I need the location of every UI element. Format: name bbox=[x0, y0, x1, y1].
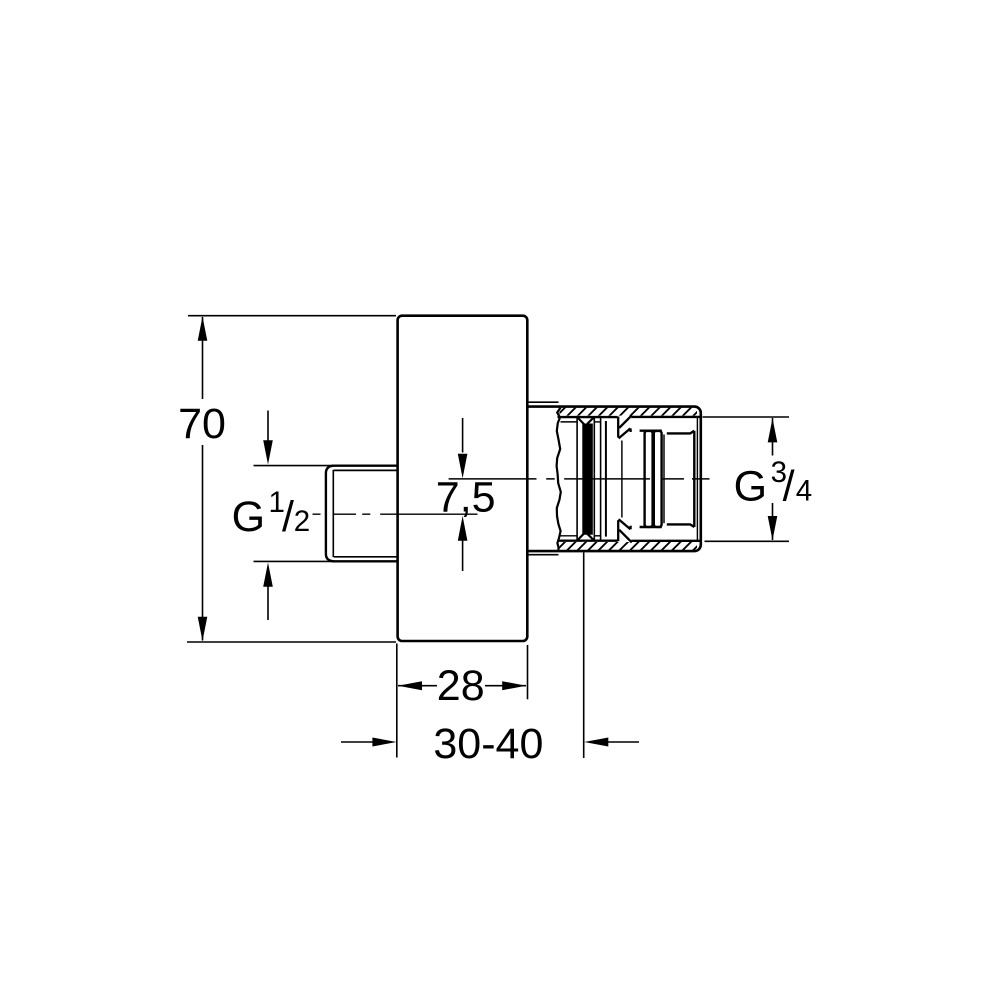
dim 70: bottom extension line bbox=[187, 641, 396, 643]
G1/2 dim: bottom extension line bbox=[254, 560, 333, 562]
G1/2 threaded tail: top outer edge bbox=[332, 465, 398, 467]
nut bore top edge bbox=[631, 416, 699, 418]
svg-text:28: 28 bbox=[437, 662, 485, 710]
dim 28: left extension line bbox=[396, 644, 398, 758]
svg-text:30-40: 30-40 bbox=[433, 720, 543, 768]
nipple face line bbox=[663, 435, 665, 524]
sleeve inner thin line top-left bbox=[561, 421, 577, 423]
nipple cone tip vertical top bbox=[629, 428, 631, 432]
nipple cone chamfer bottom inner bbox=[619, 519, 631, 529]
sleeve inner thin line bottom-left bbox=[561, 535, 577, 537]
nipple cone tip vertical bottom bbox=[629, 526, 631, 530]
seal groove V-notch top bbox=[578, 418, 594, 425]
G3/4 dim: dimension line bbox=[772, 418, 774, 540]
nipple cone edge top bbox=[617, 417, 619, 438]
dim 28: right extension line bbox=[527, 645, 529, 699]
sleeve inner thin line top-right bbox=[595, 421, 601, 423]
sleeve inner thin line bottom-right bbox=[595, 535, 601, 537]
washer line 2 bbox=[605, 421, 607, 537]
nut bore bottom edge bbox=[631, 540, 699, 542]
hatching top wall bbox=[556, 407, 703, 417]
dim 70: arrowhead down bbox=[198, 617, 208, 641]
nipple end face bbox=[693, 431, 695, 527]
svg-text:G: G bbox=[734, 462, 767, 510]
sleeve bottom edge (thick) bbox=[558, 540, 618, 542]
dim 30-40: right arrow pointing left bbox=[606, 741, 639, 743]
G1/2 thread minor diameter top bbox=[334, 469, 398, 471]
wall plate (front escutcheon, side view) bbox=[398, 316, 528, 641]
nipple cone edge bottom bbox=[617, 520, 619, 541]
dim 28: dimension line with outward arrowheads bbox=[398, 685, 526, 687]
seal groove V-notch bottom bbox=[578, 534, 594, 541]
sleeve top edge (thick) bbox=[558, 416, 618, 418]
dim 30-40: right extension line bbox=[583, 553, 585, 759]
G1/2 dim: arrow down to top edge bbox=[267, 411, 269, 442]
connecting nipple neck: top thin line bbox=[529, 401, 559, 403]
label G 1/2 bbox=[232, 486, 311, 541]
nipple thread ring 2 bbox=[654, 431, 662, 527]
hatching bottom wall bbox=[556, 541, 703, 551]
washer line 1 bbox=[600, 417, 602, 540]
dim 7,5: arrow up to lower centerline bbox=[462, 541, 464, 572]
nipple step top bbox=[640, 430, 662, 432]
nut inner wall right bbox=[696, 417, 698, 541]
flat gasket (black seal) bbox=[582, 424, 593, 535]
G1/2 thread chamfer line bbox=[332, 470, 334, 557]
svg-text:G: G bbox=[232, 493, 265, 541]
G1/2 dim: arrow up to bottom edge bbox=[267, 587, 269, 621]
svg-text:70: 70 bbox=[178, 400, 226, 448]
hose break: wavy line bbox=[557, 408, 561, 551]
union nut shell outline bbox=[527, 407, 701, 551]
G3/4 dim: arrowhead up bbox=[768, 418, 778, 442]
seal groove left wall bbox=[576, 418, 578, 541]
G1/2 thread minor diameter bottom bbox=[334, 556, 398, 558]
label G 3/4 bbox=[734, 456, 813, 510]
G3/4 dim: arrowhead down bbox=[768, 516, 778, 540]
nipple body bottom bbox=[667, 524, 695, 527]
nipple bore line bbox=[621, 441, 623, 518]
dim 70: dimension line bbox=[202, 317, 204, 641]
seal groove right wall bbox=[593, 418, 595, 541]
svg-text:4: 4 bbox=[796, 474, 812, 507]
dim 30-40: left arrow pointing right bbox=[341, 741, 374, 743]
G1/2 threaded tail: left chamfered end bbox=[326, 466, 334, 562]
nipple step bottom bbox=[640, 526, 662, 528]
centerline of hose connector bbox=[449, 478, 710, 480]
nipple cone chamfer top outer bbox=[619, 415, 632, 428]
svg-text:2: 2 bbox=[294, 505, 310, 538]
dim 7,5: arrow down to upper centerline bbox=[462, 418, 464, 453]
svg-text:7,5: 7,5 bbox=[436, 474, 496, 522]
connecting nipple neck: bottom thin line bbox=[529, 554, 559, 556]
centerline of threaded tail bbox=[313, 513, 478, 515]
svg-text:/: / bbox=[282, 493, 294, 541]
G3/4 dim: top extension line bbox=[703, 416, 790, 418]
nipple body top bbox=[667, 431, 695, 434]
dim 70: top extension line bbox=[188, 315, 396, 317]
G3/4 dim: bottom extension line bbox=[705, 540, 790, 542]
G1/2 threaded tail: bottom outer edge bbox=[332, 560, 398, 562]
svg-text:/: / bbox=[783, 462, 795, 510]
G1/2 dim: top extension line bbox=[254, 465, 333, 467]
nipple thread ring 1 bbox=[645, 431, 653, 527]
nipple cone chamfer top inner bbox=[619, 428, 631, 438]
nipple cone chamfer bottom outer bbox=[619, 530, 632, 543]
dim 70: arrowhead up bbox=[198, 317, 208, 341]
